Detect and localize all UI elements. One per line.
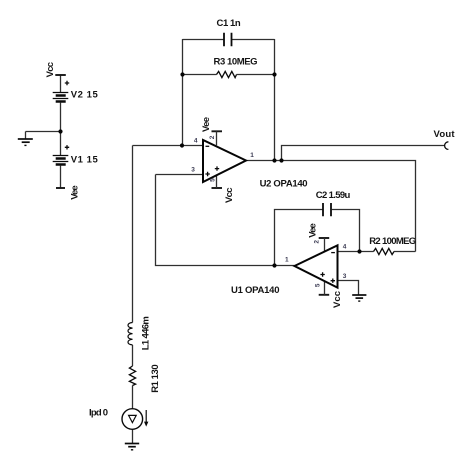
svg-text:R1 130: R1 130	[150, 364, 161, 393]
svg-text:3: 3	[343, 273, 347, 280]
svg-text:R2 100MEG: R2 100MEG	[369, 236, 416, 247]
svg-text:Vcc: Vcc	[332, 291, 343, 308]
svg-text:L1 446m: L1 446m	[140, 316, 151, 350]
svg-text:2: 2	[314, 240, 321, 244]
svg-text:5: 5	[210, 178, 217, 182]
svg-text:5: 5	[315, 283, 322, 287]
svg-text:U2 OPA140: U2 OPA140	[260, 179, 308, 190]
svg-text:Ipd 0: Ipd 0	[89, 408, 108, 419]
svg-text:C2 1.59u: C2 1.59u	[316, 190, 351, 201]
svg-text:Vee: Vee	[201, 117, 212, 132]
svg-text:V2 15: V2 15	[71, 89, 99, 100]
svg-text:U1 OPA140: U1 OPA140	[231, 285, 280, 296]
svg-text:V1 15: V1 15	[71, 155, 99, 166]
svg-text:Vee: Vee	[69, 185, 80, 200]
svg-text:R3 10MEG: R3 10MEG	[214, 57, 258, 68]
svg-text:Vee: Vee	[308, 223, 319, 238]
svg-text:Vout: Vout	[434, 129, 456, 140]
svg-text:Vcc: Vcc	[45, 62, 56, 78]
svg-text:Vcc: Vcc	[224, 188, 235, 204]
svg-text:4: 4	[194, 137, 198, 144]
svg-text:C1 1n: C1 1n	[217, 18, 241, 29]
svg-text:4: 4	[343, 244, 347, 251]
svg-text:3: 3	[191, 167, 195, 174]
svg-text:2: 2	[209, 135, 216, 139]
svg-text:1: 1	[250, 152, 254, 159]
svg-text:1: 1	[285, 257, 289, 264]
